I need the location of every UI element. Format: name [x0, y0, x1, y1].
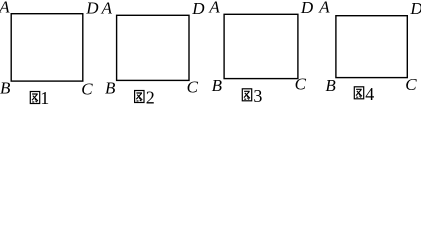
svg-text:C: C	[187, 78, 199, 97]
caption fig1: glyph tu	[30, 92, 39, 104]
svg-text:2: 2	[146, 88, 155, 107]
svg-text:A: A	[101, 0, 113, 17]
svg-text:A: A	[0, 0, 10, 17]
square 1 ABCD	[11, 14, 83, 81]
svg-text:D: D	[409, 0, 421, 18]
svg-text:B: B	[0, 78, 11, 97]
caption fig4: glyph tu	[354, 87, 363, 99]
square 3 ABCD	[224, 14, 298, 78]
square 4 ABCD	[336, 16, 407, 78]
svg-text:D: D	[191, 0, 205, 18]
caption fig2: glyph tu	[135, 91, 144, 103]
svg-text:D: D	[85, 0, 99, 18]
svg-text:C: C	[295, 75, 307, 94]
svg-text:A: A	[208, 0, 220, 17]
svg-text:C: C	[81, 80, 93, 99]
square 2 ABCD	[117, 15, 189, 80]
svg-text:B: B	[105, 78, 116, 97]
svg-text:3: 3	[253, 86, 262, 106]
svg-text:C: C	[405, 75, 417, 94]
svg-text:4: 4	[365, 84, 374, 104]
svg-text:B: B	[212, 76, 223, 95]
caption fig3: glyph tu	[242, 89, 251, 101]
svg-text:B: B	[325, 76, 336, 95]
svg-text:D: D	[300, 0, 314, 17]
svg-text:1: 1	[40, 88, 49, 107]
svg-text:A: A	[318, 0, 330, 17]
